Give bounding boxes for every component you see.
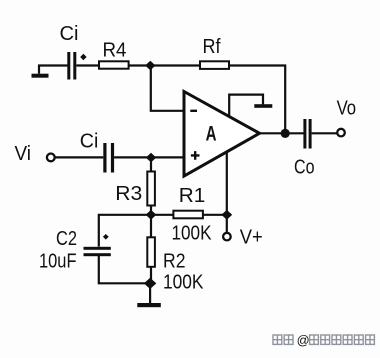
resistor R3 — [147, 172, 155, 206]
wire: Ci to R4 — [76, 64, 99, 66]
capacitor Ci (top coupling) — [67, 52, 76, 80]
wire: GND1 to capacitor Ci (top) — [38, 64, 68, 66]
svg-text:Ci: Ci — [60, 23, 79, 45]
wire: op-amp V- pin to GND2 — [229, 95, 263, 117]
node N2 (non-inverting input junction) — [146, 153, 156, 163]
resistor R1 — [173, 211, 203, 219]
svg-text:Vi: Vi — [15, 143, 32, 165]
wire: R3 to node N3 — [150, 206, 152, 216]
wire: N3 left and down to C2 top plate — [99, 215, 151, 247]
svg-text:C2: C2 — [56, 228, 77, 250]
node N1 (junction R4 / Rf / inverting branch) — [145, 61, 155, 71]
wire: R4 to node N1 — [129, 64, 151, 66]
svg-text:Co: Co — [294, 157, 315, 179]
capacitor Ci (input coupling) — [103, 143, 114, 173]
op-amp U1 triangle — [184, 92, 260, 177]
wire: Ci to node N2 — [114, 156, 151, 158]
polarity marker (Ci top) — [80, 54, 86, 60]
svg-text:@: @ — [297, 333, 310, 348]
wire: R1 to node N5 — [203, 214, 227, 216]
wire: R2 bottom to node N6 — [150, 267, 152, 284]
wire: op-amp V+ pin down to N5 — [226, 152, 228, 215]
wire: Vi to capacitor Ci (input) — [55, 156, 104, 158]
wire: Co to terminal Vo — [312, 132, 337, 134]
resistor R2 — [147, 237, 155, 266]
resistor Rf — [200, 61, 229, 69]
polarity marker (C2) — [103, 234, 109, 240]
capacitor C2 (electrolytic bypass) — [84, 247, 111, 256]
svg-text:100K: 100K — [172, 223, 213, 245]
resistor R4 — [99, 61, 129, 68]
watermark 头条 @李工谈元器件 — [273, 333, 374, 348]
svg-text:V+: V+ — [240, 226, 263, 248]
svg-text:R1: R1 — [179, 185, 206, 207]
svg-text:Ci: Ci — [80, 131, 99, 153]
node N3 (R3 / R1 / C2 / R2 junction) — [146, 210, 157, 220]
non-inverting input marker + — [191, 151, 200, 160]
svg-text:100K: 100K — [163, 272, 204, 294]
wire: N6 to GND3 — [149, 283, 151, 303]
svg-text:A: A — [206, 121, 217, 145]
wire: N5 to terminal V+ — [226, 215, 228, 233]
terminal Vo — [337, 129, 345, 137]
wire: Rf to output node N4 (top rail and drop) — [229, 66, 285, 134]
wire: N2 down to R3 — [150, 158, 152, 173]
svg-text:R2: R2 — [163, 251, 186, 273]
svg-text:Rf: Rf — [203, 36, 221, 58]
ground GND1 (input bias, top-left) — [32, 66, 49, 78]
wire: N2 to + input — [151, 156, 184, 158]
wire: op-amp output to capacitor Co — [260, 132, 304, 134]
wire: N1 down to inverting input — [151, 66, 184, 111]
svg-text:R3: R3 — [115, 183, 142, 205]
wire: N3 down to R2 — [150, 215, 152, 238]
ground GND3 (bottom) — [137, 303, 161, 307]
capacitor Co (output coupling) — [303, 119, 311, 149]
ground GND2 (op-amp V- pin) — [254, 104, 272, 108]
node N4 (output / feedback junction) — [281, 129, 290, 138]
inverting input marker - — [190, 110, 197, 112]
node N6 (ground junction) — [144, 278, 156, 289]
node N5 (V+ junction) — [221, 210, 232, 220]
terminal Vi — [47, 154, 55, 162]
svg-text:Vo: Vo — [337, 98, 357, 120]
svg-text:10uF: 10uF — [39, 251, 77, 273]
wire: N3 to R1 — [151, 214, 173, 216]
terminal V+ — [223, 233, 231, 241]
svg-text:R4: R4 — [103, 40, 127, 62]
wire: C2 bottom plate down and right to node N6 — [99, 256, 151, 283]
wire: N1 to Rf — [151, 64, 201, 66]
